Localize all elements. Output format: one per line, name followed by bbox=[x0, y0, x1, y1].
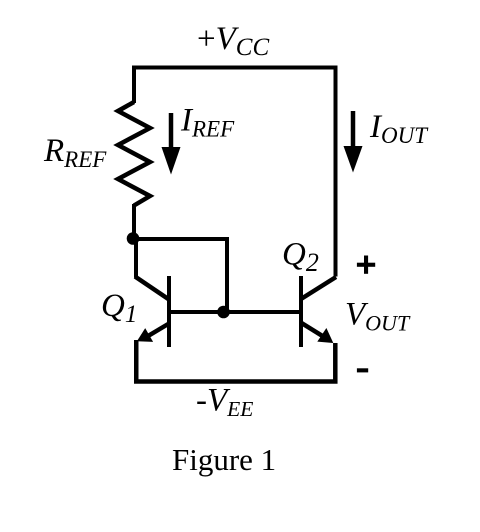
node A junction dot bbox=[127, 232, 140, 245]
IREF current arrow bbox=[169, 113, 174, 149]
transistor Q1 base bar bbox=[167, 276, 171, 347]
wire resistor bottom to node A bbox=[132, 204, 136, 240]
transistor Q1 emitter diagonal bbox=[145, 324, 169, 338]
transistor Q2 emitter diagonal bbox=[301, 323, 327, 339]
wire Q1 emitter drop, bottom rail (-VEE), Q2 emitter rise bbox=[136, 340, 335, 382]
IOUT current arrow bbox=[351, 111, 356, 148]
transistor Q2 emitter arrowhead bbox=[317, 328, 333, 343]
minus sign of VOUT polarity bbox=[357, 368, 368, 372]
plus sign of VOUT polarity bbox=[357, 263, 375, 267]
wire node A to base-drop column bbox=[131, 237, 227, 241]
transistor Q1 emitter arrowhead bbox=[137, 328, 153, 342]
node B junction dot on base rail bbox=[217, 306, 230, 319]
wire node A down to Q1 collector bbox=[134, 237, 138, 278]
wire top rail with left and right drops (+VCC rail) bbox=[134, 68, 336, 277]
wire base rail connecting Q1 and Q2 bases bbox=[169, 310, 301, 314]
svg-text:Figure 1: Figure 1 bbox=[172, 442, 276, 477]
transistor Q2 collector diagonal bbox=[301, 277, 336, 299]
resistor RREF bbox=[118, 102, 150, 206]
transistor Q2 base bar bbox=[299, 276, 303, 347]
transistor Q1 collector diagonal bbox=[135, 277, 169, 300]
wire base-drop column down to base rail bbox=[225, 237, 229, 312]
